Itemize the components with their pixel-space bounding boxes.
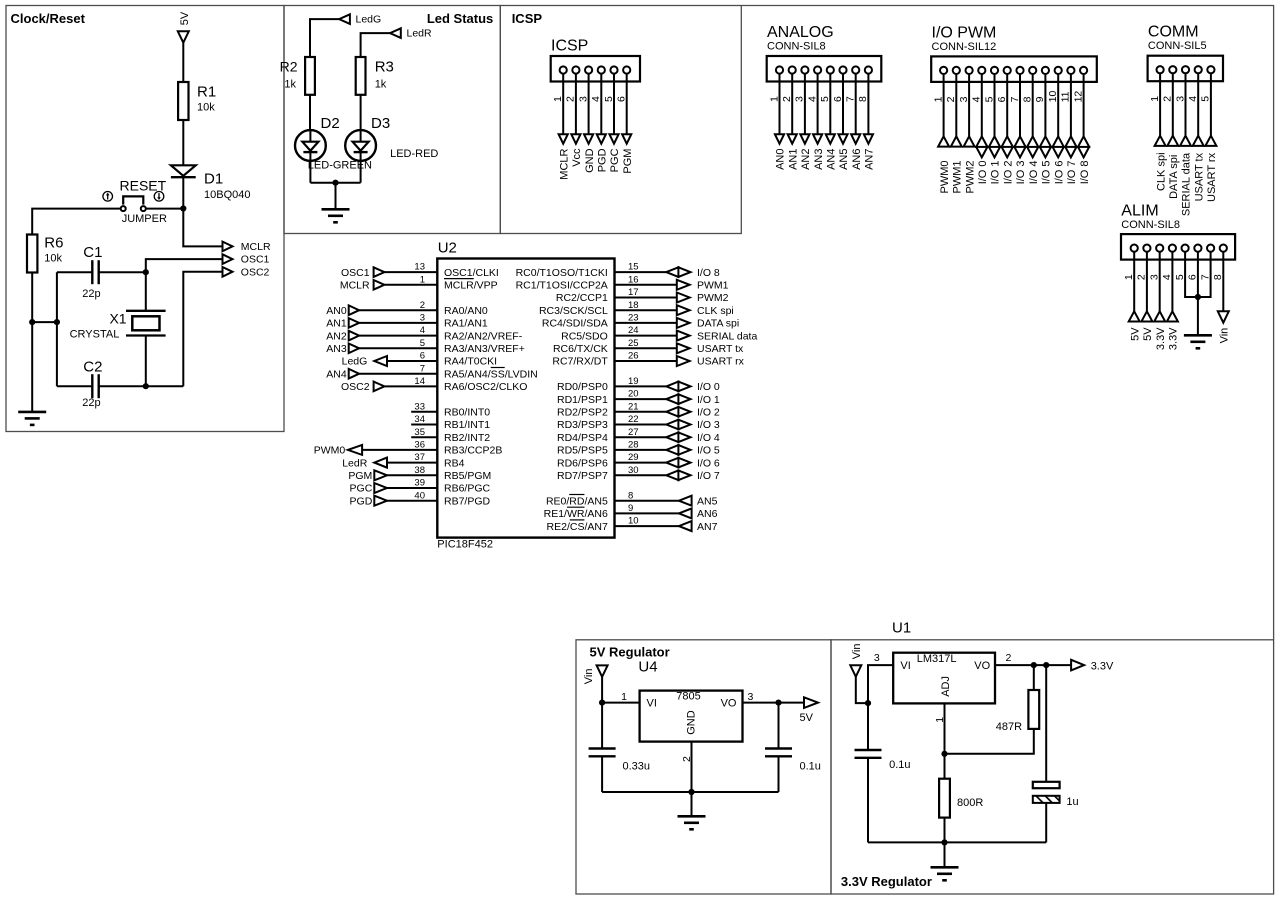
svg-text:OSC1/CLKI: OSC1/CLKI — [444, 267, 499, 279]
wire rail to C1 — [57, 271, 92, 273]
ground clock block — [18, 412, 46, 425]
terminal I/O 4 bidir — [666, 431, 690, 443]
svg-text:3.3V: 3.3V — [1168, 327, 1180, 350]
U2 pin 34 number — [414, 414, 425, 425]
I/O PWM pin 7 wire — [1019, 74, 1021, 136]
svg-text:AN5: AN5 — [838, 148, 850, 169]
svg-text:3.3V: 3.3V — [1155, 327, 1167, 350]
ICSP pin 1 arrow — [559, 134, 568, 144]
value 22p C1 — [82, 288, 100, 300]
wire branch to left rail — [32, 321, 57, 323]
svg-text:1k: 1k — [284, 79, 296, 91]
svg-text:13: 13 — [414, 262, 425, 273]
label R6 — [44, 234, 63, 251]
alim pin 8 Vin terminal — [1218, 311, 1229, 322]
wire rail to ground U1 — [944, 842, 946, 867]
U4 pin 2 number — [681, 756, 693, 762]
svg-text:GND: GND — [584, 148, 596, 173]
svg-text:0.1u: 0.1u — [800, 760, 821, 772]
svg-text:I/O 5: I/O 5 — [697, 445, 720, 457]
svg-text:I/O 1: I/O 1 — [990, 160, 1002, 184]
svg-text:PGC: PGC — [350, 483, 373, 495]
svg-text:VO: VO — [974, 660, 990, 672]
U2 pin 13 wire — [384, 271, 437, 273]
svg-text:SERIAL data: SERIAL data — [697, 330, 757, 342]
svg-text:29: 29 — [628, 452, 639, 463]
svg-text:PGM: PGM — [622, 149, 634, 174]
junction Vin U1 — [865, 700, 871, 706]
U2 pin 35 number — [414, 427, 425, 438]
alim pin 3 wire — [1159, 252, 1161, 312]
svg-text:RA3/AN3/VREF+: RA3/AN3/VREF+ — [444, 343, 525, 355]
terminal I/O 1 bidir — [666, 393, 690, 405]
U2 pin 9 wire — [615, 512, 679, 514]
svg-text:PGC: PGC — [609, 148, 621, 172]
terminal PGC in — [374, 483, 387, 493]
svg-text:RC4/SDI/SDA: RC4/SDI/SDA — [542, 318, 608, 330]
ANALOG pin 3 arrow — [800, 134, 809, 144]
svg-text:30: 30 — [628, 465, 639, 476]
I/O PWM pin 5 label I/O 1 — [990, 160, 1002, 184]
svg-text:AN4: AN4 — [326, 368, 347, 380]
svg-text:RC6/TX/CK: RC6/TX/CK — [553, 343, 608, 355]
label R2 — [280, 59, 298, 75]
resistor R6 — [27, 235, 37, 273]
svg-text:19: 19 — [628, 376, 639, 387]
svg-text:4: 4 — [1161, 274, 1173, 280]
label AN5 — [697, 495, 718, 507]
U2 value PIC18F452 — [437, 539, 493, 551]
U2 pin 24 number — [628, 325, 639, 336]
U2 pin 7 number — [420, 363, 425, 374]
svg-text:RC1/T1OSI/CCP2A: RC1/T1OSI/CCP2A — [516, 280, 608, 292]
svg-text:Vcc: Vcc — [571, 148, 583, 167]
wire Vin junction to C 0.33u — [601, 703, 603, 749]
alim pin 5 wire — [1185, 252, 1198, 297]
svg-text:RB5/PGM: RB5/PGM — [444, 470, 491, 482]
resistor R1 — [178, 82, 188, 120]
label AN4 — [326, 368, 347, 380]
alim pin 2 label 5V — [1142, 327, 1154, 341]
label DATA spi — [697, 318, 739, 330]
wire 5V junction to C 0.1u — [778, 703, 780, 749]
wire D3 to rail — [360, 161, 362, 183]
svg-text:I/O 0: I/O 0 — [977, 160, 989, 184]
U2 pin 37 wire — [387, 462, 437, 464]
svg-text:AN7: AN7 — [864, 148, 876, 169]
I/O PWM pin 1 arrow — [938, 136, 949, 146]
COMM pin 5 wire — [1210, 73, 1212, 135]
svg-text:R6: R6 — [44, 234, 63, 251]
connector alim body — [1121, 234, 1235, 260]
svg-text:AN0: AN0 — [326, 305, 347, 317]
ICSP pin 4 label PGD — [597, 148, 609, 172]
ANALOG pin 2 label AN1 — [787, 148, 799, 169]
COMM pin 3 wire — [1185, 73, 1187, 135]
wire D2 to rail — [309, 161, 311, 183]
block frame Led Status — [284, 6, 500, 234]
wire 800R to rail — [944, 818, 946, 843]
U2 pin 34 stub — [411, 424, 437, 426]
wire pin3 U4 — [743, 702, 805, 704]
capacitor C2 — [92, 374, 98, 398]
svg-text:10k: 10k — [44, 252, 62, 264]
svg-text:RD7/PSP7: RD7/PSP7 — [557, 470, 608, 482]
I/O PWM pin 1 label PWM0 — [939, 161, 951, 194]
wire ground rail U1 — [868, 841, 1046, 843]
ANALOG pin 5 label AN4 — [826, 148, 838, 169]
svg-text:R2: R2 — [280, 59, 298, 75]
svg-text:AN4: AN4 — [826, 148, 838, 169]
alim pin 2 arrow — [1141, 311, 1152, 321]
label AN7 — [697, 521, 718, 533]
junction 487R top — [1031, 662, 1037, 668]
svg-text:I/O 4: I/O 4 — [1028, 160, 1040, 184]
svg-text:I/O 2: I/O 2 — [1003, 160, 1015, 184]
U1 pin 1 number — [934, 717, 946, 723]
I/O PWM pin 5 arrow — [988, 136, 1002, 157]
ground led block — [322, 209, 350, 222]
terminal MCLR in — [374, 280, 385, 290]
COMM pin 5 arrow — [1205, 136, 1216, 146]
wire OSC1 up — [146, 259, 223, 272]
wire LedG to R2 — [310, 19, 339, 57]
svg-text:PWM0: PWM0 — [314, 445, 346, 457]
block frame connectors — [741, 6, 1273, 640]
svg-text:VI: VI — [647, 697, 657, 709]
svg-text:6: 6 — [1187, 274, 1199, 280]
U2 pin 14 wire — [384, 385, 437, 387]
U2 pin 15 wire — [615, 271, 667, 273]
svg-text:RA1/AN1: RA1/AN1 — [444, 318, 488, 330]
U2 pin 27 wire — [615, 436, 667, 438]
COMM pin 1 label CLK spi — [1155, 152, 1167, 191]
junction ground U4 — [688, 789, 694, 795]
ANALOG pin 8 arrow — [864, 134, 873, 144]
junction left rail — [54, 319, 60, 325]
ANALOG pin 3 label AN2 — [800, 148, 812, 169]
svg-text:RB1/INT1: RB1/INT1 — [444, 419, 490, 431]
terminal I/O 3 bidir — [666, 419, 690, 431]
value LED-RED — [390, 148, 438, 160]
svg-text:10BQ040: 10BQ040 — [204, 189, 250, 201]
U1 ADJ pin wire — [944, 703, 946, 753]
label D3 — [371, 115, 390, 132]
terminal PWM1 out — [677, 280, 690, 290]
ANALOG pin 8 label AN7 — [864, 148, 876, 169]
ANALOG pin 1 label AN0 — [775, 148, 787, 169]
I/O PWM pin 7 label I/O 3 — [1015, 160, 1027, 184]
svg-text:10: 10 — [628, 516, 639, 527]
svg-text:40: 40 — [414, 490, 425, 501]
U2 pin 1 number — [420, 274, 425, 285]
svg-text:LedG: LedG — [342, 356, 368, 368]
svg-text:5V: 5V — [800, 712, 814, 724]
power terminal 5V — [178, 31, 189, 42]
terminal OSC1 in — [374, 267, 385, 277]
wire R3 to D3 — [360, 95, 362, 130]
U2 pin 29 wire — [615, 462, 667, 464]
svg-text:Vin: Vin — [1219, 328, 1231, 344]
svg-text:RC3/SCK/SCL: RC3/SCK/SCL — [539, 305, 608, 317]
label I/O 1 — [697, 394, 720, 406]
terminal PWM2 out — [677, 293, 690, 303]
svg-text:2: 2 — [420, 300, 425, 311]
svg-text:5V: 5V — [1142, 327, 1154, 341]
label I/O 6 — [697, 457, 720, 469]
svg-text:CONN-SIL5: CONN-SIL5 — [1148, 40, 1207, 52]
svg-text:RA5/AN4/SS/LVDIN: RA5/AN4/SS/LVDIN — [444, 368, 538, 380]
svg-text:PGD: PGD — [350, 495, 373, 507]
svg-text:I/O 4: I/O 4 — [697, 432, 720, 444]
svg-text:PGD: PGD — [597, 148, 609, 172]
label D2 — [321, 115, 340, 132]
U2 overline WR — [567, 506, 585, 508]
svg-text:36: 36 — [414, 440, 425, 451]
svg-text:MCLR/VPP: MCLR/VPP — [444, 280, 498, 292]
I/O PWM pin 2 arrow — [951, 136, 962, 146]
label USART rx — [697, 356, 745, 368]
U2 pin 29 number — [628, 452, 639, 463]
op-chip U2 body — [437, 259, 614, 538]
U2 pin 35 stub — [411, 436, 437, 438]
svg-text:5: 5 — [1200, 96, 1212, 102]
U4 pin 1 number — [621, 691, 627, 703]
U1 pin 2 number — [1006, 652, 1012, 664]
svg-text:RD1/PSP1: RD1/PSP1 — [557, 394, 608, 406]
terminal AN1 in — [349, 318, 359, 328]
ANALOG pin 1 arrow — [775, 134, 784, 144]
svg-text:RB2/INT2: RB2/INT2 — [444, 432, 490, 444]
junction 1u top — [1043, 662, 1049, 668]
terminal USART rx out — [677, 356, 690, 366]
ANALOG pin 6 wire — [842, 74, 844, 135]
svg-text:PWM0: PWM0 — [939, 161, 951, 194]
U2 pin 5 number — [420, 338, 425, 349]
svg-text:RD4/PSP4: RD4/PSP4 — [557, 432, 608, 444]
I/O PWM pin 4 label I/O 0 — [977, 160, 989, 184]
label JUMPER — [122, 213, 167, 225]
wire ADJ to 800R — [944, 754, 946, 779]
U2 pin 3 number — [420, 313, 425, 324]
svg-text:RA6/OSC2/CLKO: RA6/OSC2/CLKO — [444, 381, 527, 393]
wire Vin to junction U1 — [856, 677, 868, 703]
svg-text:RD5/PSP5: RD5/PSP5 — [557, 445, 608, 457]
label AN0 — [326, 305, 347, 317]
label Vin U4 — [583, 668, 595, 684]
U2 left pin names — [444, 267, 538, 508]
svg-text:1: 1 — [934, 717, 946, 723]
svg-text:R1: R1 — [197, 84, 216, 101]
ANALOG pin 2 arrow — [788, 134, 797, 144]
connector alim value CONN-SIL8 — [1121, 219, 1180, 231]
svg-text:28: 28 — [628, 440, 639, 451]
value LED-GREEN — [308, 160, 372, 172]
COMM pin 3 label SERIAL data — [1181, 152, 1193, 216]
connector ICSP pin numbers — [552, 96, 628, 102]
terminal OSC1 out — [223, 254, 233, 264]
ICSP pin 4 arrow — [597, 134, 606, 144]
U2 pin 17 wire — [615, 297, 677, 299]
ICSP pin 2 wire — [575, 74, 577, 135]
svg-text:RB6/PGC: RB6/PGC — [444, 483, 491, 495]
svg-text:U2: U2 — [438, 239, 457, 256]
terminal AN4 in — [349, 369, 359, 379]
resistor 800R — [939, 779, 950, 818]
svg-text:VO: VO — [721, 697, 737, 709]
alim pin 1 label 5V — [1129, 327, 1141, 341]
ICSP pin 5 arrow — [609, 134, 618, 144]
jumper pin marker up-arrow — [103, 192, 113, 202]
U1 pin name VO — [974, 660, 990, 672]
U1 pin name ADJ — [940, 676, 952, 697]
svg-text:USART tx: USART tx — [1193, 152, 1205, 201]
svg-text:33: 33 — [414, 401, 425, 412]
U2 pin 19 wire — [615, 385, 667, 387]
label C2 — [83, 358, 102, 375]
ANALOG pin 7 wire — [855, 74, 857, 135]
svg-text:I/O PWM: I/O PWM — [932, 24, 997, 41]
svg-text:8: 8 — [1212, 274, 1224, 280]
U2 overline SS — [491, 367, 505, 369]
U2 pin 28 wire — [615, 449, 667, 451]
label 5V U4 — [800, 712, 814, 724]
wire R6 down to ground — [31, 273, 33, 412]
svg-text:AN6: AN6 — [851, 148, 863, 169]
I/O PWM pin 8 arrow — [1026, 136, 1040, 157]
ICSP pin 1 label MCLR — [558, 148, 570, 179]
regulator U1 body LM317L — [893, 653, 995, 704]
svg-text:OSC2: OSC2 — [341, 381, 370, 393]
connector COMM pin numbers — [1149, 96, 1212, 102]
jumper J1 — [121, 196, 146, 211]
svg-text:I/O 8: I/O 8 — [697, 267, 720, 279]
svg-text:3.3V Regulator: 3.3V Regulator — [841, 874, 932, 889]
svg-text:5V Regulator: 5V Regulator — [590, 645, 670, 660]
svg-text:25: 25 — [628, 338, 639, 349]
ANALOG pin 4 arrow — [813, 134, 822, 144]
jumper pin marker down-arrow — [154, 192, 164, 202]
terminal AN7 in — [679, 521, 692, 531]
U2 pin 2 wire — [359, 309, 437, 311]
ICSP pin 6 wire — [626, 74, 628, 135]
label R3 — [375, 59, 394, 76]
svg-text:PWM2: PWM2 — [697, 292, 729, 304]
U1 value LM317L — [917, 653, 957, 665]
ANALOG pin 4 label AN3 — [813, 148, 825, 169]
ANALOG pin 4 wire — [817, 74, 819, 135]
svg-text:U1: U1 — [892, 619, 911, 636]
I/O PWM pin 8 label I/O 4 — [1028, 160, 1040, 184]
I/O PWM pin 2 wire — [955, 74, 957, 136]
U2 pin 6 wire — [387, 360, 437, 362]
wire 1u to rail — [1045, 803, 1047, 843]
value 0.33u — [623, 760, 651, 772]
label PGM — [348, 470, 372, 482]
ICSP pin 3 arrow — [584, 134, 593, 144]
svg-text:R3: R3 — [375, 59, 394, 76]
junction C1/X1/OSC1 — [143, 269, 149, 275]
U2 pin 5 wire — [359, 347, 437, 349]
U2 overline MCLR — [444, 278, 474, 280]
svg-text:Led Status: Led Status — [427, 11, 493, 26]
I/O PWM pin 12 label I/O 8 — [1079, 160, 1091, 184]
COMM pin 2 wire — [1172, 73, 1174, 135]
svg-text:8: 8 — [628, 490, 633, 501]
connector I/O PWM value CONN-SIL12 — [932, 41, 997, 53]
terminal SERIAL data out — [677, 331, 690, 341]
label R1 — [197, 84, 216, 101]
label AN3 — [326, 343, 347, 355]
wire 0.1u to rail U4 — [778, 756, 780, 792]
svg-text:AN0: AN0 — [775, 148, 787, 169]
COMM pin 1 arrow — [1155, 136, 1166, 146]
svg-text:OSC1: OSC1 — [341, 267, 370, 279]
ICSP pin 2 arrow — [571, 134, 580, 144]
I/O PWM pin 12 wire — [1083, 74, 1085, 136]
U2 pin 10 wire — [615, 525, 679, 527]
I/O PWM pin 10 label I/O 6 — [1053, 160, 1065, 184]
capacitor 1u polarized — [1033, 782, 1060, 803]
svg-text:22: 22 — [628, 414, 639, 425]
svg-text:D2: D2 — [321, 115, 340, 132]
I/O PWM pin 3 arrow — [964, 136, 975, 146]
svg-text:39: 39 — [414, 478, 425, 489]
terminal DATA spi out — [677, 318, 690, 328]
svg-text:GND: GND — [685, 710, 697, 735]
alim pin 3 arrow — [1154, 311, 1165, 321]
alim pin 7 wire — [1198, 252, 1211, 297]
alim pin 8 label Vin — [1219, 328, 1231, 344]
ANALOG pin 5 arrow — [826, 134, 835, 144]
svg-text:34: 34 — [414, 414, 425, 425]
U2 pin 16 wire — [615, 284, 677, 286]
U4 pin 3 number — [748, 691, 754, 703]
COMM pin 2 arrow — [1167, 136, 1178, 146]
capacitor 0.33u — [589, 749, 616, 757]
U2 pin 1 wire — [384, 284, 437, 286]
ICSP pin 3 label GND — [584, 148, 596, 173]
svg-text:AN2: AN2 — [326, 330, 347, 342]
wire jumper to R6 — [32, 209, 121, 235]
COMM pin 4 label USART tx — [1193, 152, 1205, 201]
svg-text:AN5: AN5 — [697, 495, 718, 507]
svg-text:LedG: LedG — [356, 14, 382, 26]
svg-text:I/O 3: I/O 3 — [1015, 160, 1027, 184]
svg-text:CLK spi: CLK spi — [1155, 152, 1167, 191]
label SERIAL data — [697, 330, 757, 342]
svg-text:DATA spi: DATA spi — [697, 318, 739, 330]
connector ANALOG value CONN-SIL8 — [767, 41, 826, 53]
ANALOG pin 5 wire — [829, 74, 831, 135]
crystal X1 — [126, 311, 166, 336]
svg-text:11: 11 — [1060, 91, 1072, 102]
label LedG terminal — [356, 14, 382, 26]
svg-text:800R: 800R — [957, 797, 983, 809]
svg-text:RB7/PGD: RB7/PGD — [444, 495, 491, 507]
svg-text:RB0/INT0: RB0/INT0 — [444, 407, 490, 419]
svg-text:22p: 22p — [82, 397, 100, 409]
svg-text:ICSP: ICSP — [512, 11, 543, 26]
svg-text:USART rx: USART rx — [697, 356, 745, 368]
U2 pin 4 number — [420, 325, 425, 336]
connector ANALOG title — [767, 24, 834, 41]
junction Vin U4 — [599, 700, 605, 706]
svg-text:AN3: AN3 — [326, 343, 347, 355]
U2 pin 4 wire — [359, 335, 437, 337]
U2 pin 18 wire — [615, 309, 677, 311]
I/O PWM pin 1 wire — [943, 74, 945, 136]
